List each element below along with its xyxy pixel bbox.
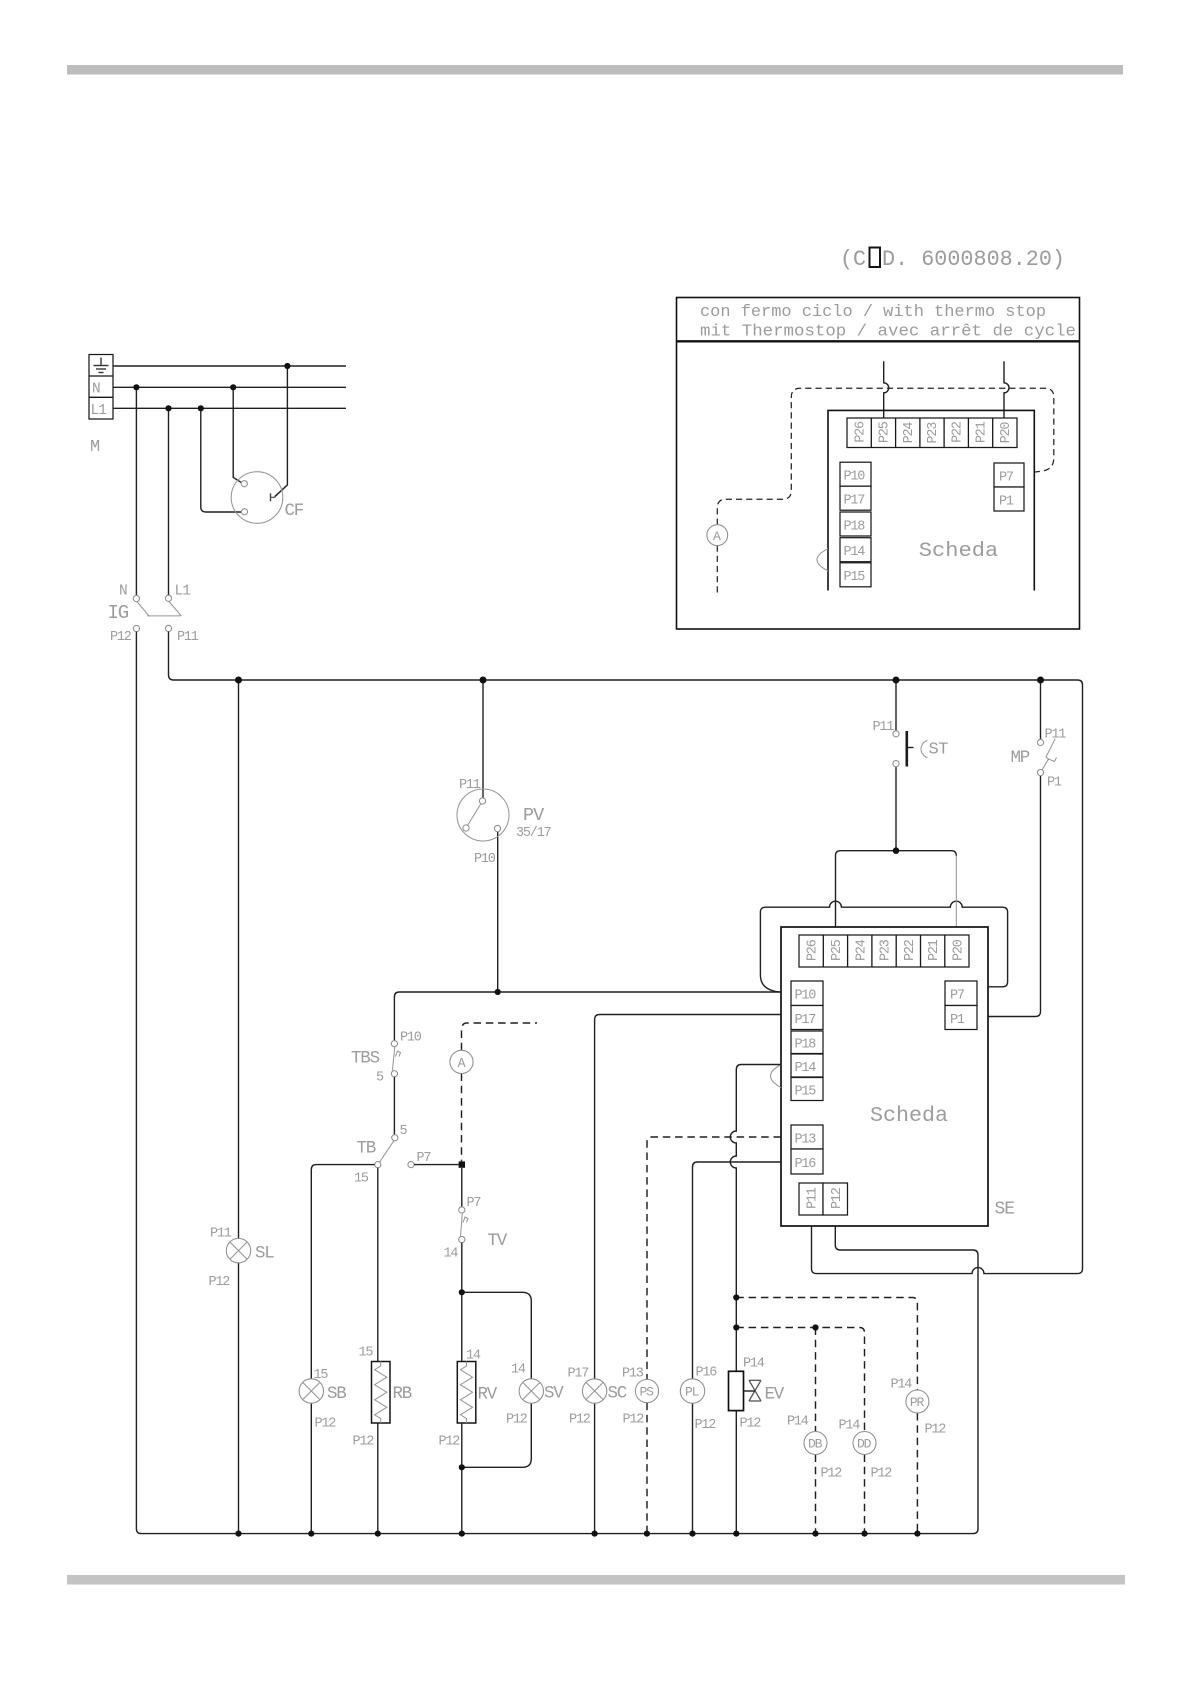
svg-text:P14: P14 [787,1415,809,1430]
svg-text:(C: (C [840,247,866,272]
svg-text:L1: L1 [91,403,107,419]
svg-text:D. 6000808.20): D. 6000808.20) [882,247,1065,272]
svg-text:14: 14 [466,1349,481,1364]
svg-text:L1: L1 [175,584,191,600]
svg-text:P11: P11 [210,1227,232,1242]
svg-text:P12: P12 [925,1423,947,1438]
svg-text:ST: ST [929,741,949,760]
svg-text:P23: P23 [926,422,941,444]
svg-text:P17: P17 [844,494,866,509]
svg-text:P1: P1 [1047,776,1062,791]
svg-text:P14: P14 [743,1357,765,1372]
svg-text:A: A [713,529,721,544]
svg-text:P26: P26 [806,939,821,961]
svg-text:DD: DD [857,1437,872,1452]
svg-text:P23: P23 [879,939,894,961]
svg-text:MP: MP [1011,748,1030,768]
svg-text:P25: P25 [830,939,845,961]
svg-text:P15: P15 [844,570,866,585]
svg-text:P12: P12 [740,1417,762,1432]
svg-text:15: 15 [314,1368,329,1383]
svg-text:P21: P21 [927,939,942,961]
svg-text:P18: P18 [795,1038,817,1053]
svg-text:P12: P12 [110,630,132,645]
svg-text:P1: P1 [950,1013,965,1028]
svg-text:P10: P10 [474,852,496,867]
svg-text:PL: PL [685,1385,699,1400]
svg-text:P18: P18 [844,519,866,534]
svg-text:SL: SL [255,1244,274,1264]
svg-text:P25: P25 [878,421,893,443]
svg-text:P10: P10 [400,1031,422,1046]
svg-text:P10: P10 [795,989,817,1004]
svg-text:P12: P12 [871,1467,893,1482]
svg-text:5: 5 [400,1124,408,1139]
svg-text:P12: P12 [209,1275,231,1290]
svg-text:P12: P12 [569,1413,591,1428]
svg-text:Scheda: Scheda [870,1105,948,1128]
svg-text:DB: DB [808,1437,823,1452]
svg-text:P11: P11 [873,720,895,735]
svg-text:mit Thermostop / avec arrêt de: mit Thermostop / avec arrêt de cycle [700,323,1076,342]
svg-text:P1: P1 [999,494,1014,509]
svg-text:RB: RB [393,1384,412,1404]
svg-text:SV: SV [544,1384,564,1404]
svg-text:P13: P13 [795,1133,817,1148]
svg-text:P12: P12 [695,1418,717,1433]
svg-text:P11: P11 [806,1187,821,1209]
svg-text:P12: P12 [506,1413,528,1428]
svg-text:P13: P13 [622,1367,644,1382]
svg-text:P14: P14 [839,1419,861,1434]
svg-text:SE: SE [995,1200,1015,1220]
svg-text:P12: P12 [821,1467,843,1482]
svg-text:15: 15 [354,1172,369,1187]
svg-text:N: N [92,382,100,398]
svg-text:PR: PR [910,1395,925,1410]
svg-text:15: 15 [359,1346,374,1361]
svg-text:P11: P11 [177,630,199,645]
svg-text:P16: P16 [696,1366,718,1381]
svg-text:SB: SB [327,1384,346,1404]
svg-text:14: 14 [511,1363,526,1378]
svg-text:P26: P26 [853,421,868,443]
svg-text:P24: P24 [854,939,869,961]
svg-text:35/17: 35/17 [516,826,552,841]
svg-text:SC: SC [608,1384,627,1404]
svg-text:PV: PV [523,805,544,826]
svg-text:EV: EV [765,1385,785,1405]
svg-text:IG: IG [108,602,129,624]
svg-text:P16: P16 [795,1157,817,1172]
svg-text:P14: P14 [891,1378,913,1393]
svg-text:con fermo ciclo / with thermo: con fermo ciclo / with thermo stop [700,303,1046,322]
svg-text:N: N [119,584,127,600]
svg-text:RV: RV [478,1385,498,1405]
svg-text:P12: P12 [830,1187,845,1209]
svg-text:P7: P7 [950,989,965,1004]
svg-text:TB: TB [357,1139,376,1159]
svg-text:P24: P24 [902,422,917,444]
svg-text:TV: TV [488,1231,508,1251]
svg-text:P11: P11 [459,778,481,793]
svg-text:P17: P17 [568,1367,590,1382]
svg-text:P12: P12 [439,1435,461,1450]
svg-text:CF: CF [285,501,304,521]
svg-text:P12: P12 [353,1435,375,1450]
svg-text:P7: P7 [417,1151,432,1166]
svg-text:P7: P7 [467,1196,482,1211]
svg-text:P11: P11 [1045,728,1067,743]
svg-text:P12: P12 [315,1417,337,1432]
svg-text:P21: P21 [975,421,990,443]
svg-text:P14: P14 [795,1061,817,1076]
svg-text:Scheda: Scheda [919,540,999,563]
svg-text:P17: P17 [795,1013,817,1028]
svg-text:P10: P10 [844,470,866,485]
svg-text:14: 14 [444,1247,459,1262]
svg-text:P14: P14 [844,545,866,560]
svg-text:P22: P22 [903,939,918,961]
svg-text:P20: P20 [951,939,966,961]
svg-text:P15: P15 [795,1085,817,1100]
svg-text:P12: P12 [623,1413,645,1428]
svg-text:PS: PS [640,1385,655,1400]
svg-text:P20: P20 [999,422,1014,444]
svg-text:P7: P7 [999,470,1014,485]
svg-text:M: M [90,438,100,457]
svg-text:5: 5 [376,1071,384,1086]
svg-text:TBS: TBS [351,1049,380,1069]
svg-text:P22: P22 [951,421,966,443]
